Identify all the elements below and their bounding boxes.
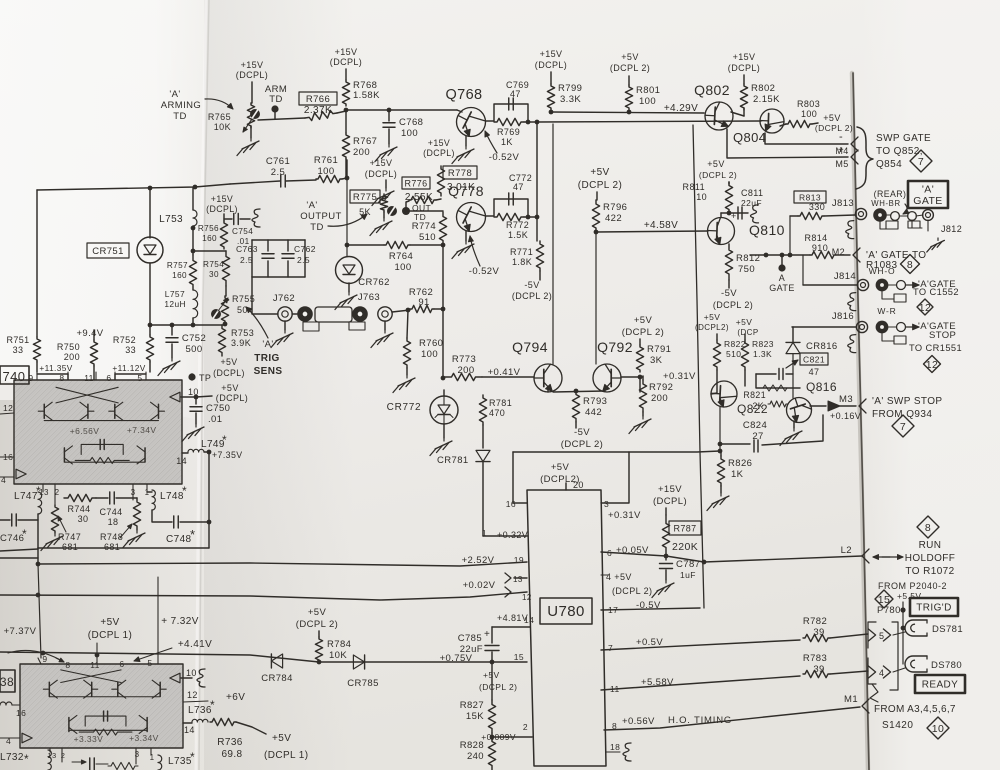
svg-text:5: 5 [147,658,152,668]
svg-text:14: 14 [176,456,187,466]
svg-text:P780: P780 [877,605,901,616]
svg-text:3.9K: 3.9K [231,338,251,348]
svg-text:(DCPL2): (DCPL2) [695,323,729,332]
svg-text:R736: R736 [217,737,243,748]
svg-text:*: * [22,527,27,541]
svg-text:1.5K: 1.5K [508,230,528,240]
svg-text:22uF: 22uF [741,198,762,208]
svg-text:WH-BR: WH-BR [871,199,900,208]
svg-text:+: + [838,145,844,156]
svg-text:5: 5 [879,631,884,641]
svg-text:+4.41V: +4.41V [178,639,212,650]
svg-text:69.8: 69.8 [221,749,242,760]
svg-text:R769: R769 [497,127,520,137]
svg-text:9: 9 [28,373,33,383]
svg-text:13: 13 [513,575,523,584]
svg-text:12: 12 [3,403,13,413]
svg-text:22uF: 22uF [460,644,483,655]
svg-text:R775: R775 [353,192,377,203]
svg-text:510: 510 [726,349,741,359]
svg-text:CR772: CR772 [387,402,422,413]
svg-text:(DCPL 2): (DCPL 2) [296,619,338,630]
svg-text:+15V: +15V [370,158,393,168]
svg-text:SWP GATE: SWP GATE [876,133,931,144]
svg-text:100: 100 [639,96,656,107]
svg-text:M2: M2 [832,247,845,257]
svg-text:R752: R752 [113,335,136,345]
svg-text:+: + [484,629,490,640]
svg-text:'A': 'A' [262,339,273,350]
svg-text:R826: R826 [728,458,752,469]
svg-text:C750: C750 [206,403,230,414]
svg-text:(DCPL): (DCPL) [330,57,362,67]
svg-text:R755: R755 [232,294,255,304]
svg-text:7: 7 [918,156,924,168]
svg-text:1K: 1K [731,469,744,480]
svg-text:OUTPUT: OUTPUT [300,211,341,222]
svg-text:C824: C824 [743,420,767,431]
svg-text:11: 11 [90,660,100,670]
svg-text:CR762: CR762 [358,277,390,288]
svg-text:8: 8 [907,259,913,271]
svg-text:SENS: SENS [254,366,283,377]
svg-text:RUN: RUN [919,540,942,551]
svg-text:200: 200 [651,393,668,404]
svg-text:33: 33 [13,345,24,355]
svg-text:10K: 10K [214,122,231,132]
svg-text:L732: L732 [0,752,24,763]
svg-text:R783: R783 [803,653,827,664]
svg-text:CR816: CR816 [806,341,838,352]
svg-text:+4.58V: +4.58V [644,220,678,231]
svg-text:100: 100 [394,262,411,273]
svg-text:C787: C787 [676,559,700,570]
svg-text:R814: R814 [804,233,827,243]
svg-text:R776: R776 [404,179,427,189]
svg-text:+5V: +5V [707,159,724,169]
svg-text:2.5: 2.5 [240,255,253,265]
svg-text:91: 91 [418,297,429,308]
svg-text:+7.34V: +7.34V [127,425,157,435]
svg-text:'A': 'A' [306,200,317,211]
svg-text:U780: U780 [547,603,584,620]
svg-text:FROM A3,4,5,6,7: FROM A3,4,5,6,7 [874,704,956,715]
svg-text:+0.02V: +0.02V [463,580,496,591]
svg-text:R750: R750 [57,342,80,352]
svg-text:50: 50 [237,305,248,315]
svg-text:TO R1072: TO R1072 [905,566,954,577]
svg-text:681: 681 [62,542,78,552]
svg-text:R793: R793 [583,396,607,407]
svg-text:Q792: Q792 [597,339,633,355]
svg-text:+ 7.32V: + 7.32V [161,616,199,627]
svg-text:2: 2 [61,751,66,760]
svg-text:+5V: +5V [221,383,238,393]
svg-text:*: * [36,484,41,498]
svg-text:M1: M1 [844,694,858,705]
svg-text:*: * [24,752,29,766]
svg-text:+9.4V: +9.4V [76,328,103,339]
svg-text:R813: R813 [799,193,821,203]
svg-text:S1420: S1420 [882,720,913,731]
svg-text:R773: R773 [452,354,476,365]
svg-text:+15V: +15V [658,484,682,495]
svg-text:TP: TP [199,373,211,383]
svg-text:+4.29V: +4.29V [664,103,698,114]
svg-text:+5V: +5V [100,617,119,628]
svg-text:39: 39 [813,627,824,638]
svg-text:(DCPL): (DCPL) [535,60,567,70]
svg-text:14: 14 [184,725,195,735]
svg-text:Q816: Q816 [806,380,837,394]
svg-text:+15V: +15V [211,194,233,204]
svg-text:(DCPL 2): (DCPL 2) [713,300,753,310]
svg-text:8: 8 [59,373,64,383]
svg-text:+5V: +5V [590,167,609,178]
svg-text:740: 740 [3,369,26,384]
svg-text:6: 6 [106,373,111,383]
svg-text:R796: R796 [603,202,627,213]
svg-text:+7.37V: +7.37V [4,626,37,637]
svg-text:+0.16V: +0.16V [830,411,861,421]
svg-text:TO CR1551: TO CR1551 [909,343,962,353]
svg-text:(DCPL 2): (DCPL 2) [610,63,650,73]
svg-text:+11.35V: +11.35V [39,363,72,373]
svg-text:ARMING: ARMING [161,100,201,111]
svg-text:(DCPL 2): (DCPL 2) [699,170,737,180]
svg-text:1: 1 [150,753,155,762]
svg-text:2.5: 2.5 [271,167,285,178]
svg-text:FROM P2040-2: FROM P2040-2 [878,581,947,591]
svg-text:12: 12 [522,593,532,602]
svg-text:+5V: +5V [551,462,570,473]
svg-text:CR751: CR751 [92,246,124,257]
svg-text:10: 10 [932,723,944,735]
svg-text:(DCPL 2): (DCPL 2) [512,291,552,301]
svg-text:4 +5V: 4 +5V [606,572,632,582]
svg-text:13: 13 [47,751,56,760]
svg-text:33: 33 [125,345,136,355]
svg-text:(DCPL 2): (DCPL 2) [815,123,853,133]
svg-text:R744: R744 [67,504,90,514]
svg-text:12uH: 12uH [164,299,186,309]
svg-text:CR781: CR781 [437,455,469,466]
svg-text:C748: C748 [166,534,192,545]
svg-text:910: 910 [812,243,828,253]
svg-text:(DCPL): (DCPL) [236,70,268,80]
svg-text:+15V: +15V [540,49,563,59]
svg-text:12: 12 [187,690,198,700]
svg-text:(DCPL): (DCPL) [206,204,238,214]
svg-text:R784: R784 [327,639,351,650]
svg-text:-5V: -5V [721,288,737,299]
svg-text:R791: R791 [647,344,671,355]
svg-text:+5V: +5V [736,317,753,327]
svg-text:(DCPL 1): (DCPL 1) [264,750,309,761]
svg-text:3: 3 [604,499,609,509]
svg-text:L747: L747 [14,491,38,502]
svg-text:Q802: Q802 [694,82,730,98]
svg-text:R828: R828 [460,740,484,751]
svg-text:(DCPL): (DCPL) [653,496,687,507]
svg-text:R778: R778 [448,168,472,179]
svg-text:16: 16 [16,708,26,718]
svg-text:W-R: W-R [877,306,896,316]
svg-text:18: 18 [108,517,119,527]
svg-text:R765: R765 [208,112,231,122]
svg-text:10K: 10K [329,650,347,661]
svg-text:Q768: Q768 [445,87,482,103]
svg-text:-0.52V: -0.52V [489,152,520,163]
svg-text:GATE: GATE [769,283,794,293]
svg-text:GATE: GATE [913,195,942,207]
svg-text:C811: C811 [741,188,763,198]
svg-text:R751: R751 [6,335,29,345]
svg-text:+5V: +5V [308,607,327,618]
svg-text:+15V: +15V [241,60,264,70]
svg-text:J814: J814 [834,271,856,282]
svg-text:18: 18 [610,742,620,752]
svg-text:R821: R821 [743,390,766,400]
svg-text:C821: C821 [803,355,825,365]
svg-text:L757: L757 [165,289,185,299]
svg-text:2.15K: 2.15K [753,94,780,105]
svg-text:200: 200 [457,365,474,376]
svg-text:+5V: +5V [272,733,291,744]
svg-text:M3: M3 [839,394,853,405]
svg-text:9: 9 [42,654,47,664]
svg-text:12: 12 [926,359,938,371]
svg-text:A: A [779,273,785,283]
svg-text:+0.56V: +0.56V [622,716,655,727]
svg-text:-5V: -5V [574,427,590,438]
svg-text:R772: R772 [506,220,529,230]
svg-text:(DCPL): (DCPL) [213,368,245,378]
svg-text:422: 422 [605,213,622,224]
svg-text:R811: R811 [683,182,705,192]
svg-text:+7.35V: +7.35V [212,450,243,460]
svg-text:R764: R764 [389,251,413,262]
svg-text:L2: L2 [841,545,852,556]
svg-text:C746: C746 [0,533,24,544]
svg-text:R761: R761 [314,155,338,166]
svg-text:1.3K: 1.3K [753,349,772,359]
svg-text:Q822: Q822 [737,402,768,416]
svg-text:+6V: +6V [226,692,245,703]
svg-text:100: 100 [317,166,334,177]
svg-text:3.3K: 3.3K [560,94,581,105]
svg-text:750: 750 [738,264,755,275]
svg-text:(DCPL 1): (DCPL 1) [88,630,133,641]
svg-text:220K: 220K [672,541,698,553]
svg-text:681: 681 [104,542,120,552]
svg-text:(DCPL): (DCPL) [216,393,248,403]
svg-text:Q794: Q794 [512,339,548,355]
svg-text:Q804: Q804 [733,130,766,145]
svg-text:(REAR): (REAR) [874,189,907,199]
svg-text:R767: R767 [353,136,377,147]
svg-text:C762: C762 [294,244,316,254]
svg-text:(DCPL): (DCPL) [728,63,760,73]
svg-text:47: 47 [510,89,521,99]
svg-text:L736: L736 [188,705,212,716]
svg-text:R756: R756 [198,224,219,233]
svg-text:30: 30 [78,514,89,524]
svg-text:(DCPL): (DCPL) [365,169,397,179]
svg-text:3: 3 [135,750,140,759]
svg-text:+5V: +5V [634,315,653,326]
svg-text:R757: R757 [167,261,188,270]
svg-text:200: 200 [353,147,370,158]
svg-text:-: - [839,131,843,143]
svg-text:'A': 'A' [922,184,934,196]
svg-text:C763: C763 [236,244,258,254]
svg-text:R766: R766 [306,94,330,105]
svg-text:+0.31V: +0.31V [608,510,641,521]
svg-text:+15V: +15V [428,138,450,148]
svg-text:TD: TD [269,94,282,105]
svg-text:R771: R771 [510,247,533,257]
svg-text:20: 20 [573,480,584,490]
svg-text:5: 5 [137,373,142,383]
svg-text:R782: R782 [803,616,827,627]
svg-text:15K: 15K [466,711,484,722]
svg-text:+3.34V: +3.34V [129,733,159,743]
svg-text:C752: C752 [182,333,206,344]
svg-text:READY: READY [922,680,958,691]
svg-text:C785: C785 [458,633,482,644]
svg-text:-5V: -5V [524,280,539,290]
svg-text:L735: L735 [168,756,192,767]
svg-text:2.37K: 2.37K [304,105,332,116]
svg-text:200: 200 [64,352,80,362]
svg-text:+5V: +5V [220,357,237,367]
svg-text:(DCPL 2): (DCPL 2) [622,327,664,338]
svg-text:12: 12 [919,302,931,314]
svg-text:TO C1552: TO C1552 [913,287,959,297]
svg-text:*: * [182,484,187,498]
svg-text:1.8K: 1.8K [512,257,532,267]
svg-text:11: 11 [84,373,94,383]
svg-text:10: 10 [186,668,197,678]
svg-text:J816: J816 [832,311,854,322]
svg-text:38: 38 [0,675,14,689]
svg-text:+5V: +5V [621,52,638,62]
svg-text:+5V: +5V [823,113,840,123]
svg-text:-0.52V: -0.52V [469,266,500,277]
svg-text:R781: R781 [489,398,512,408]
svg-text:1.58K: 1.58K [353,90,380,101]
svg-text:Q810: Q810 [749,222,785,238]
svg-text:STOP: STOP [929,330,956,341]
svg-text:7: 7 [608,643,613,653]
svg-text:HOLDOFF: HOLDOFF [905,553,956,564]
svg-text:160: 160 [202,234,217,243]
svg-text:R760: R760 [419,338,443,349]
svg-text:R774: R774 [412,221,436,232]
svg-text:*: * [190,527,195,542]
svg-text:+15V: +15V [335,47,358,57]
svg-text:3K: 3K [650,355,663,366]
svg-text:C754: C754 [232,227,253,236]
svg-text:Q778: Q778 [448,183,484,199]
svg-text:8: 8 [925,522,931,534]
svg-text:TD: TD [173,111,186,122]
svg-text:CR785: CR785 [347,678,379,689]
svg-text:Q854: Q854 [876,159,902,170]
svg-text:442: 442 [585,407,602,418]
svg-text:7: 7 [900,421,906,433]
svg-text:100: 100 [401,128,418,139]
svg-text:15: 15 [514,652,524,662]
svg-text:2.55K: 2.55K [405,192,433,203]
svg-text:DS781: DS781 [932,624,963,635]
svg-text:(DCPL): (DCPL) [423,148,455,158]
svg-text:470: 470 [489,408,505,418]
svg-text:R799: R799 [558,83,582,94]
svg-text:330: 330 [809,202,825,212]
svg-text:J813: J813 [832,198,854,209]
svg-text:10: 10 [696,192,707,202]
svg-text:+2.52V: +2.52V [462,555,495,566]
svg-text:+0.31V: +0.31V [663,371,696,382]
svg-text:(DCPL 2): (DCPL 2) [479,682,517,692]
svg-text:R753: R753 [231,328,254,338]
svg-text:J812: J812 [941,224,962,234]
svg-text:240: 240 [467,751,484,762]
svg-text:47: 47 [513,182,524,192]
svg-text:C768: C768 [399,117,423,128]
svg-text:WH-O: WH-O [869,266,896,276]
svg-text:*: * [190,750,195,764]
svg-text:R803: R803 [797,99,820,109]
svg-text:2: 2 [523,722,528,732]
svg-text:R748: R748 [100,532,123,542]
svg-text:M5: M5 [835,159,848,169]
svg-text:14: 14 [524,615,534,625]
svg-text:+15V: +15V [733,52,756,62]
svg-text:C744: C744 [99,507,122,517]
svg-text:8: 8 [65,660,70,670]
svg-text:1K: 1K [501,137,513,147]
svg-text:100: 100 [421,349,438,360]
svg-text:TRIG: TRIG [254,353,280,364]
svg-text:R802: R802 [751,83,775,94]
svg-text:39: 39 [813,664,824,675]
svg-text:1uF: 1uF [680,570,696,580]
svg-text:TRIG'D: TRIG'D [916,603,951,614]
svg-text:+0.32V: +0.32V [497,530,528,540]
svg-text:19: 19 [514,555,524,565]
svg-text:500: 500 [185,344,202,355]
svg-text:+11.12V: +11.12V [112,363,145,373]
svg-text:R823: R823 [752,339,774,349]
svg-text:30: 30 [209,270,219,279]
svg-text:(DCPL 2): (DCPL 2) [561,439,603,450]
svg-text:2.5: 2.5 [297,255,310,265]
svg-text:(DCPL 2): (DCPL 2) [612,586,652,596]
svg-text:CR784: CR784 [261,673,293,684]
svg-text:+5V: +5V [704,312,721,322]
svg-text:FROM Q934: FROM Q934 [872,409,932,420]
svg-text:+5V: +5V [483,670,500,680]
svg-text:R792: R792 [649,382,673,393]
svg-text:160: 160 [172,271,187,280]
svg-text:47: 47 [809,367,820,377]
svg-text:L753: L753 [159,214,183,225]
svg-text:TD: TD [310,222,323,233]
svg-text:C761: C761 [266,156,290,167]
